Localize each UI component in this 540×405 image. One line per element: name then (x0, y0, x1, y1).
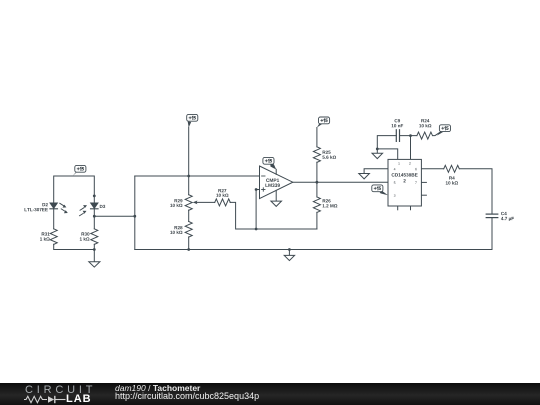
label R4 (446, 176, 458, 184)
pin number 6 (415, 168, 417, 170)
resistor R4 10k (444, 165, 460, 172)
power flag +15 right of R24 (437, 125, 451, 136)
node feedback bottom junction (255, 228, 258, 231)
wire left top rail D2-D3 (54, 176, 95, 203)
wire chip pin2 stub (410, 136, 412, 160)
resistor R27 10k (215, 199, 231, 206)
op-amp CMP1 LM339 (260, 166, 293, 201)
node noninverting input junction (255, 188, 258, 191)
resistor R31 1k (50, 229, 57, 245)
wire R25 bottom lead (316, 162, 318, 182)
label R27 (216, 189, 228, 197)
LED D2 (50, 203, 68, 213)
wire D2 to R31 (53, 208, 55, 228)
potentiometer R29 wiper arrow (193, 201, 215, 205)
wire C9 right to R24 (400, 135, 417, 137)
ground C9 (372, 149, 383, 159)
power flag +15 op-amp V+ (263, 157, 276, 169)
node C9 pin2 junction (409, 134, 412, 137)
ground bottom rail (284, 250, 294, 261)
pin number 1 (398, 162, 399, 164)
label R28 (170, 226, 182, 234)
ground left section (89, 250, 100, 268)
node D3 cathode junction (93, 215, 96, 218)
label D3 (100, 205, 105, 208)
label D2 (25, 203, 48, 211)
power flag +15 left section (73, 165, 86, 176)
pin number 7 (415, 182, 417, 184)
power flag +15 above R25 (317, 117, 330, 128)
wire R26 top lead (316, 182, 318, 197)
wire R24 to +15 (433, 132, 440, 136)
wire op-amp output to chip pin5 (293, 181, 388, 183)
node C9 ground junction (376, 148, 379, 151)
IC U2 CD14538BE (388, 159, 421, 206)
wire D3 node to middle vertical (94, 215, 135, 217)
pin number 5 (394, 182, 396, 184)
wire +15 stub above R29 (188, 127, 190, 176)
wire C9 left to ground node (377, 136, 396, 149)
capacitor C4 4.7uF (486, 214, 498, 218)
footer title text (115, 384, 200, 393)
resistor R28 10k (185, 222, 192, 238)
wire R28 to bottom rail (188, 237, 190, 250)
wire C4 bottom to rail (491, 218, 493, 250)
wire R4 to C4 top (460, 169, 492, 214)
node rail ground junction (288, 248, 291, 251)
resistor R30 1k (91, 229, 98, 245)
capacitor C9 10nF (396, 130, 399, 142)
node middle bus junction (133, 215, 136, 218)
pin number 3 (394, 194, 396, 196)
node R28 bottom junction (187, 248, 190, 251)
photodiode D3 (80, 203, 99, 216)
label R26 (323, 199, 338, 207)
wire D3 to R30 (93, 208, 95, 228)
label R30 (80, 232, 90, 240)
CircuitLab logo (25, 384, 96, 396)
resistor R24 10k (417, 132, 433, 139)
wire left bottom rail R31-R30 (54, 244, 95, 249)
pin number 4 (394, 168, 396, 170)
label R25 (322, 151, 336, 159)
power flag +15 chip pin3 (372, 185, 388, 195)
wire R27 to noninverting node (230, 202, 317, 229)
wire bottom ground rail (135, 249, 492, 251)
node D3 anode dot (93, 195, 96, 198)
potentiometer R29 10k body (185, 195, 192, 211)
wire chip bottom pin stubs (397, 206, 399, 210)
label C9 (392, 119, 404, 127)
wire ground node to chip pin1 (377, 149, 397, 160)
power flag +15 above R29 (187, 114, 198, 127)
ground chip pin4 (359, 174, 370, 179)
wire R29 to R28 (188, 210, 190, 221)
wire middle vertical bus (134, 176, 136, 250)
wire R29 top lead (188, 176, 190, 195)
label C4 (501, 212, 514, 221)
footer bar (0, 383, 540, 405)
label R31 (40, 232, 50, 240)
wire R26 bottom lead (316, 212, 318, 229)
wire R25 top lead with +15 (316, 128, 318, 147)
wire inverting input rail (135, 175, 260, 177)
wire chip pin7 stub (421, 181, 426, 183)
label R24 (419, 119, 431, 127)
node left ground junction (93, 248, 96, 251)
ground op-amp (271, 201, 282, 206)
pin number 2 (409, 162, 411, 164)
wire chip pin6 to R4 (421, 168, 443, 170)
label R29 (170, 199, 182, 207)
node output junction (316, 181, 319, 184)
wire noninverting input branch (256, 190, 259, 230)
resistor R25 5.6k (313, 147, 320, 163)
wire chip pin4 to ground (364, 169, 388, 174)
wire chip pin8 stub (421, 194, 426, 196)
resistor R26 1.2M (313, 197, 320, 213)
node R29 top junction (187, 175, 190, 178)
